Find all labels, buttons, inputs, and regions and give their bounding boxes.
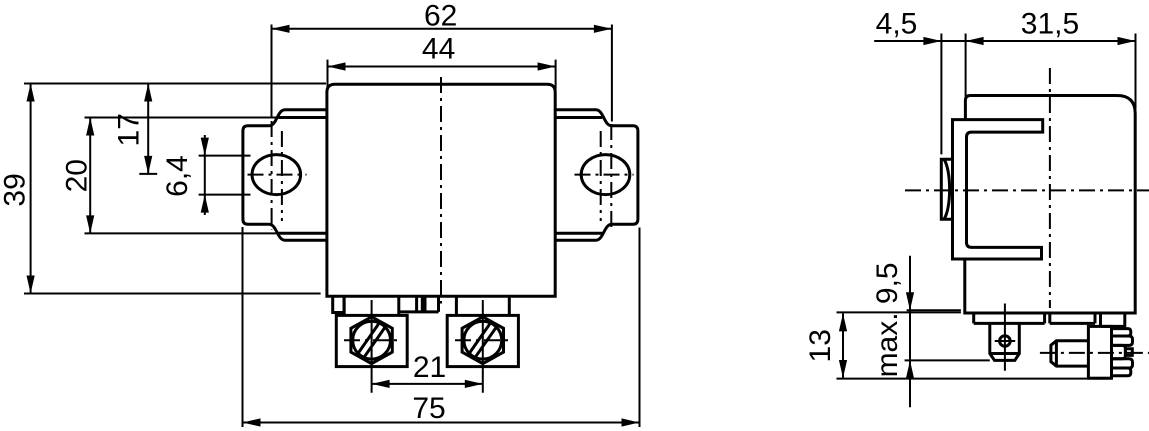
left tab hole center line vertical 2	[281, 131, 283, 221]
svg-text:21: 21	[413, 351, 446, 384]
dim 20 line	[89, 118, 91, 234]
mounting tab seen edge-on	[941, 159, 952, 219]
extension line body left	[965, 34, 967, 97]
left tab hole center line vertical 1	[271, 121, 273, 230]
dim 44 line	[328, 66, 556, 68]
right tab hole center line horizontal	[575, 174, 634, 176]
svg-text:31,5: 31,5	[1021, 8, 1079, 41]
dim 13 top arrow	[839, 313, 847, 331]
left mounting tab outline	[243, 110, 327, 240]
dim 39 top arrow	[27, 84, 35, 102]
serrated screw cap ridge 1	[1112, 329, 1131, 336]
right screw hex	[462, 317, 503, 364]
dim 20 top arrow	[86, 118, 94, 136]
hole bottom extension line	[199, 194, 251, 196]
side bottom tab row	[974, 313, 1125, 329]
left tab bottom fold line	[279, 232, 327, 235]
threaded stud	[1051, 341, 1089, 366]
body bottom extension line	[24, 293, 321, 295]
svg-text:39: 39	[0, 173, 31, 206]
dim 6,4 line	[204, 135, 206, 215]
svg-text:4,5: 4,5	[876, 8, 918, 41]
serrated screw cap ridge 3	[1112, 359, 1133, 368]
bottom left step box	[333, 296, 344, 312]
right screw horizontal center line	[455, 339, 511, 341]
dim 20 bottom arrow	[86, 215, 94, 233]
svg-text:62: 62	[424, 0, 457, 33]
side view horizontal center line	[905, 189, 1149, 191]
spade hole horizontal line	[995, 340, 1016, 342]
dim 4,5 arrow	[923, 37, 941, 45]
tab bow arc	[944, 159, 950, 219]
left screw hex	[351, 317, 392, 364]
dim 62 left extension line	[271, 25, 273, 119]
dim 44 left extension line	[327, 60, 329, 90]
dim 13 bottom arrow	[839, 360, 847, 378]
left tab top fold line	[279, 116, 327, 119]
right mounting tab outline	[555, 110, 638, 240]
dim 6,4 bottom arrow	[201, 195, 209, 213]
serrated screw cap ridge 2	[1112, 336, 1133, 345]
right screw slot lines	[469, 322, 497, 358]
dim 13 line	[842, 313, 844, 378]
serrated screw cap middle	[1112, 345, 1126, 358]
serrated screw cap ridge 4	[1112, 368, 1131, 376]
top edge extension line left	[24, 83, 326, 85]
fold top extension line	[85, 117, 280, 119]
right tab hole center line vertical 1	[600, 131, 602, 221]
dim 21 left arrow	[372, 380, 390, 388]
dim 39 line	[30, 84, 32, 294]
dim 44 left arrow	[328, 62, 346, 70]
dim 62 line	[272, 28, 612, 30]
dim 6,4 top arrow	[201, 138, 209, 156]
hole center tick for dim 17	[139, 173, 157, 175]
fold bottom extension line	[85, 232, 280, 234]
left screw vertical center line	[371, 300, 373, 393]
dim 75 left arrow	[243, 418, 261, 426]
stud axis center line	[1040, 352, 1149, 354]
svg-text:13: 13	[804, 329, 837, 362]
left screw slot lines	[358, 322, 386, 358]
dim 44 right extension line	[555, 60, 557, 90]
dim 4,5 line	[874, 40, 965, 42]
spade terminal hole	[1000, 336, 1011, 347]
dim 17 bottom arrow	[144, 156, 152, 174]
right terminal neck	[456, 296, 509, 315]
svg-text:20: 20	[61, 159, 94, 192]
svg-text:44: 44	[422, 33, 455, 66]
dim 62 right arrow	[594, 25, 612, 33]
extension line bracket left	[940, 34, 942, 155]
dim 75 right extension line	[639, 228, 641, 428]
left terminal neck	[344, 296, 399, 315]
right screw circle	[464, 321, 502, 359]
dim max 9,5 top arrow	[906, 292, 914, 310]
dim 62 left arrow	[272, 25, 290, 33]
dim 21 right arrow	[465, 380, 483, 388]
dim 75 right arrow	[622, 418, 640, 426]
dim 13 bottom extension line	[837, 378, 1112, 380]
left tab hole	[252, 155, 301, 195]
dim max 9,5 bottom arrow	[906, 361, 914, 379]
dim 44 right arrow	[538, 62, 556, 70]
dim max 9,5 top extension line	[907, 309, 961, 311]
dim 75 line	[243, 422, 640, 424]
svg-text:6,4: 6,4	[161, 155, 194, 197]
dim 31,5 right arrow	[1118, 37, 1136, 45]
dim 75 left extension line	[242, 227, 244, 427]
hole top extension line	[199, 155, 251, 157]
right screw vertical center line	[482, 300, 484, 393]
dim 17 top arrow	[144, 84, 152, 102]
right tab hole center line vertical 2	[610, 124, 612, 230]
front view vertical center line	[440, 77, 442, 304]
dim max 9,5 line	[909, 256, 911, 408]
dim max 9,5 bottom extension line	[905, 359, 990, 361]
dim 13 top extension line	[837, 311, 961, 313]
screw tip slot notch	[1125, 349, 1132, 356]
spade vertical center line	[1004, 304, 1006, 371]
stud block	[1088, 326, 1111, 378]
right tab hole	[581, 155, 630, 195]
dim 21 line	[372, 383, 483, 385]
right terminal block	[447, 315, 518, 366]
spade terminal	[990, 323, 1020, 360]
dim 17 line	[147, 84, 149, 174]
left tab hole center line horizontal	[248, 174, 307, 176]
dim 31,5 left arrow	[966, 37, 984, 45]
right tab bottom fold line	[555, 232, 602, 235]
dim 31,5 line	[966, 40, 1136, 42]
left terminal block	[336, 315, 407, 366]
side body outline	[965, 96, 1135, 314]
dim 62 right extension line	[611, 25, 613, 122]
left screw circle	[353, 321, 391, 359]
small center tabs row	[399, 296, 439, 312]
bracket outline (side)	[953, 120, 1043, 259]
left screw horizontal center line	[344, 339, 400, 341]
right tab top fold line	[555, 116, 602, 119]
dim 39 bottom arrow	[27, 276, 35, 294]
svg-text:17: 17	[112, 113, 145, 146]
relay body outline (front view)	[327, 84, 555, 296]
extension line body right	[1135, 34, 1137, 110]
side view vertical center line	[1049, 68, 1051, 308]
svg-text:max. 9,5: max. 9,5	[871, 262, 904, 377]
svg-text:75: 75	[412, 392, 445, 425]
